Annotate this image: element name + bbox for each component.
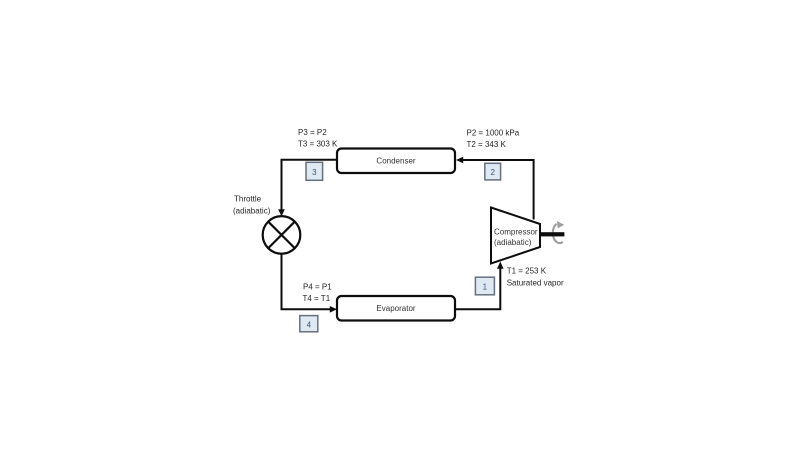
svg-text:(adiabatic): (adiabatic) (494, 238, 532, 247)
svg-text:T1 = 253 K: T1 = 253 K (507, 267, 547, 276)
svg-text:Condenser: Condenser (376, 157, 415, 166)
svg-text:P4 = P1: P4 = P1 (303, 282, 332, 291)
svg-text:Evaporator: Evaporator (376, 304, 415, 313)
svg-text:T4 = T1: T4 = T1 (303, 294, 331, 303)
node 1 marker (475, 277, 494, 295)
svg-text:P3 = P2: P3 = P2 (298, 128, 327, 137)
svg-text:Compressor: Compressor (494, 228, 538, 237)
svg-text:1: 1 (483, 283, 488, 292)
wire: condenser outlet to throttle inlet (state 3) (278, 160, 337, 217)
evaporator U-box (337, 296, 455, 321)
condenser U-box (337, 149, 455, 174)
node 4 marker (300, 316, 318, 332)
node 2 marker (485, 163, 501, 180)
svg-text:Saturated vapor: Saturated vapor (507, 279, 564, 288)
wire: throttle outlet to evaporator inlet (state 4) (282, 254, 338, 313)
wire: evaporator outlet to compressor inlet (state 1) (455, 262, 504, 310)
throttle valve (263, 216, 301, 254)
compressor (491, 208, 540, 264)
svg-text:3: 3 (312, 168, 317, 177)
rotation arrow (shaft work input) (553, 221, 564, 243)
node 3 marker (306, 162, 323, 180)
svg-text:T2 = 343 K: T2 = 343 K (467, 140, 507, 149)
svg-text:(adiabatic): (adiabatic) (233, 207, 271, 216)
compressor shaft (540, 232, 564, 236)
svg-text:2: 2 (490, 168, 495, 177)
svg-text:T3 = 303 K: T3 = 303 K (298, 140, 338, 149)
svg-text:4: 4 (307, 320, 312, 329)
svg-text:P2 = 1000 kPa: P2 = 1000 kPa (467, 129, 520, 138)
svg-text:Throttle: Throttle (234, 195, 262, 204)
wire: compressor outlet to condenser inlet (state 2) (456, 157, 534, 220)
